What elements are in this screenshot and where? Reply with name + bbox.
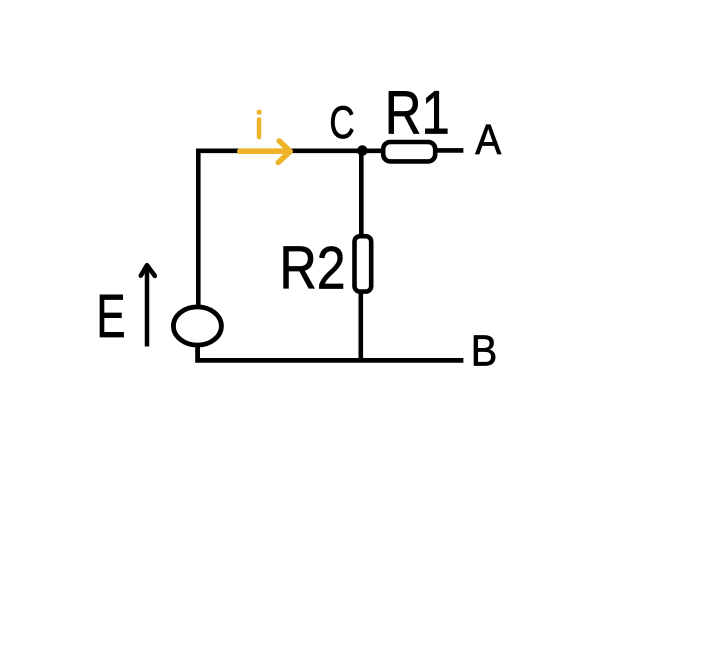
resistor R2 body bbox=[355, 236, 372, 291]
svg-text:R2: R2 bbox=[279, 234, 345, 302]
E polarity arrow head bbox=[141, 265, 155, 276]
svg-text:C: C bbox=[329, 97, 354, 148]
svg-text:B: B bbox=[471, 326, 497, 375]
E polarity arrow stem bbox=[145, 266, 150, 347]
voltage source E ellipse bbox=[173, 307, 221, 345]
label i dot (orange) bbox=[257, 110, 262, 115]
node C junction dot bbox=[357, 145, 368, 156]
svg-text:E: E bbox=[96, 283, 125, 351]
wire left vertical and top horizontal (source E up to node C and R1) bbox=[198, 151, 381, 309]
current arrow i head (orange) bbox=[278, 141, 290, 163]
svg-text:R1: R1 bbox=[385, 78, 450, 146]
wire resistor R1 right to terminal A bbox=[436, 148, 463, 153]
label i stem (orange) bbox=[257, 117, 261, 139]
wire node C down to resistor R2 top bbox=[359, 151, 364, 239]
svg-text:A: A bbox=[475, 116, 502, 164]
resistor R1 body bbox=[383, 142, 435, 161]
current arrow i shaft (orange) bbox=[240, 148, 288, 154]
wire bottom from source E to terminal B bbox=[198, 344, 464, 360]
wire resistor R2 bottom to bottom wire bbox=[358, 289, 363, 360]
